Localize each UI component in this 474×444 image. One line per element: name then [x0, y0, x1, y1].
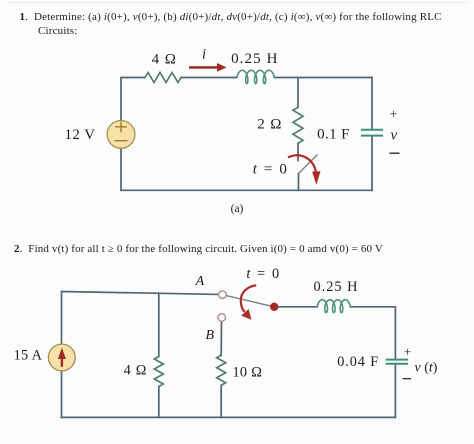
svg-text:12 V: 12 V — [65, 127, 96, 143]
current arrow i — [189, 63, 227, 72]
wire left rail lower source to bottom — [61, 371, 63, 418]
voltage source 12 V — [107, 120, 135, 148]
capacitor 0.1 F (circuit 1) — [361, 130, 383, 136]
wire middle branch top junction to 2-ohm — [297, 78, 299, 108]
inductor 0.25 H (circuit 2) — [317, 300, 350, 313]
resistor 2 ohm (circuit 1) — [293, 107, 303, 143]
switch arrow (circuit 2) — [241, 285, 257, 320]
wire top-left rail to switch A — [62, 292, 219, 345]
resistor 4 ohm (circuit 1) — [145, 73, 181, 83]
switch blade (circuit 1) — [299, 155, 318, 174]
wire right rail upper to capacitor — [371, 78, 373, 129]
wire bottom — [62, 416, 396, 418]
wire right rail lower capacitor to bottom — [371, 137, 373, 190]
wire left rail lower source to bottom — [120, 148, 122, 190]
resistor 10 ohm (circuit 2) — [217, 355, 226, 385]
svg-text:0.1 F: 0.1 F — [317, 127, 350, 143]
svg-text:15 A: 15 A — [14, 348, 43, 364]
wire middle branch switch to bottom wire — [298, 174, 300, 191]
wire right rail lower capacitor to bottom — [394, 365, 396, 418]
svg-text:(a): (a) — [231, 203, 244, 215]
switch closing arrow (circuit 1) — [288, 155, 321, 185]
wire top-left from source to resistor — [121, 78, 145, 121]
svg-text:+: + — [404, 344, 411, 359]
wire inductor to right rail down to capacitor — [351, 307, 396, 359]
svg-text:0.25 H: 0.25 H — [314, 279, 359, 295]
label minus (circuit 2) — [403, 378, 412, 380]
switch blade (circuit 2) — [226, 296, 274, 307]
wire top-right inductor to right rail — [275, 77, 373, 79]
switch terminal B — [218, 314, 226, 322]
wire 4-ohm branch upper — [158, 293, 160, 356]
top scan artifact line — [6, 2, 468, 4]
wire 10-ohm branch lower — [220, 385, 222, 417]
label minus — [390, 152, 400, 154]
svg-text:4 Ω: 4 Ω — [124, 363, 147, 379]
wire top-middle resistor to inductor — [181, 77, 237, 79]
svg-text:Circuits:: Circuits: — [38, 25, 78, 37]
svg-text:v: v — [391, 128, 398, 144]
wire 10-ohm branch B to resistor — [220, 321, 222, 355]
svg-text:A: A — [195, 274, 205, 289]
svg-text:0.25 H: 0.25 H — [231, 51, 278, 67]
svg-text:+: + — [390, 108, 398, 123]
svg-text:t = 0: t = 0 — [253, 162, 289, 178]
svg-text:10 Ω: 10 Ω — [232, 365, 262, 381]
svg-text:4 Ω: 4 Ω — [152, 52, 177, 68]
wire 4-ohm branch lower — [158, 387, 160, 418]
svg-text:B: B — [206, 328, 215, 343]
svg-text:i: i — [202, 47, 206, 63]
svg-text:v (t): v (t) — [415, 361, 438, 376]
svg-text:t = 0: t = 0 — [246, 266, 280, 282]
current source 15 A — [48, 344, 75, 371]
switch terminal A — [219, 291, 227, 299]
wire switch pivot to inductor — [274, 306, 317, 308]
capacitor 0.04 F (circuit 2) — [386, 360, 409, 364]
wire middle branch 2-ohm to switch — [297, 143, 299, 160]
svg-text:0.04 F: 0.04 F — [337, 354, 379, 370]
wire bottom — [121, 189, 372, 191]
svg-text:2 Ω: 2 Ω — [257, 117, 282, 133]
svg-text:1. Determine: (a) i(0+), v(0+: 1. Determine: (a) i(0+), v(0+), (b) di(0… — [20, 11, 442, 23]
inductor 0.25 H (circuit 1) — [237, 70, 274, 83]
svg-text:2. Find v(t) for all t ≥ 0 fo: 2. Find v(t) for all t ≥ 0 for the follo… — [14, 243, 383, 255]
switch pivot dot — [270, 303, 278, 311]
resistor 4 ohm (circuit 2) — [154, 357, 163, 387]
